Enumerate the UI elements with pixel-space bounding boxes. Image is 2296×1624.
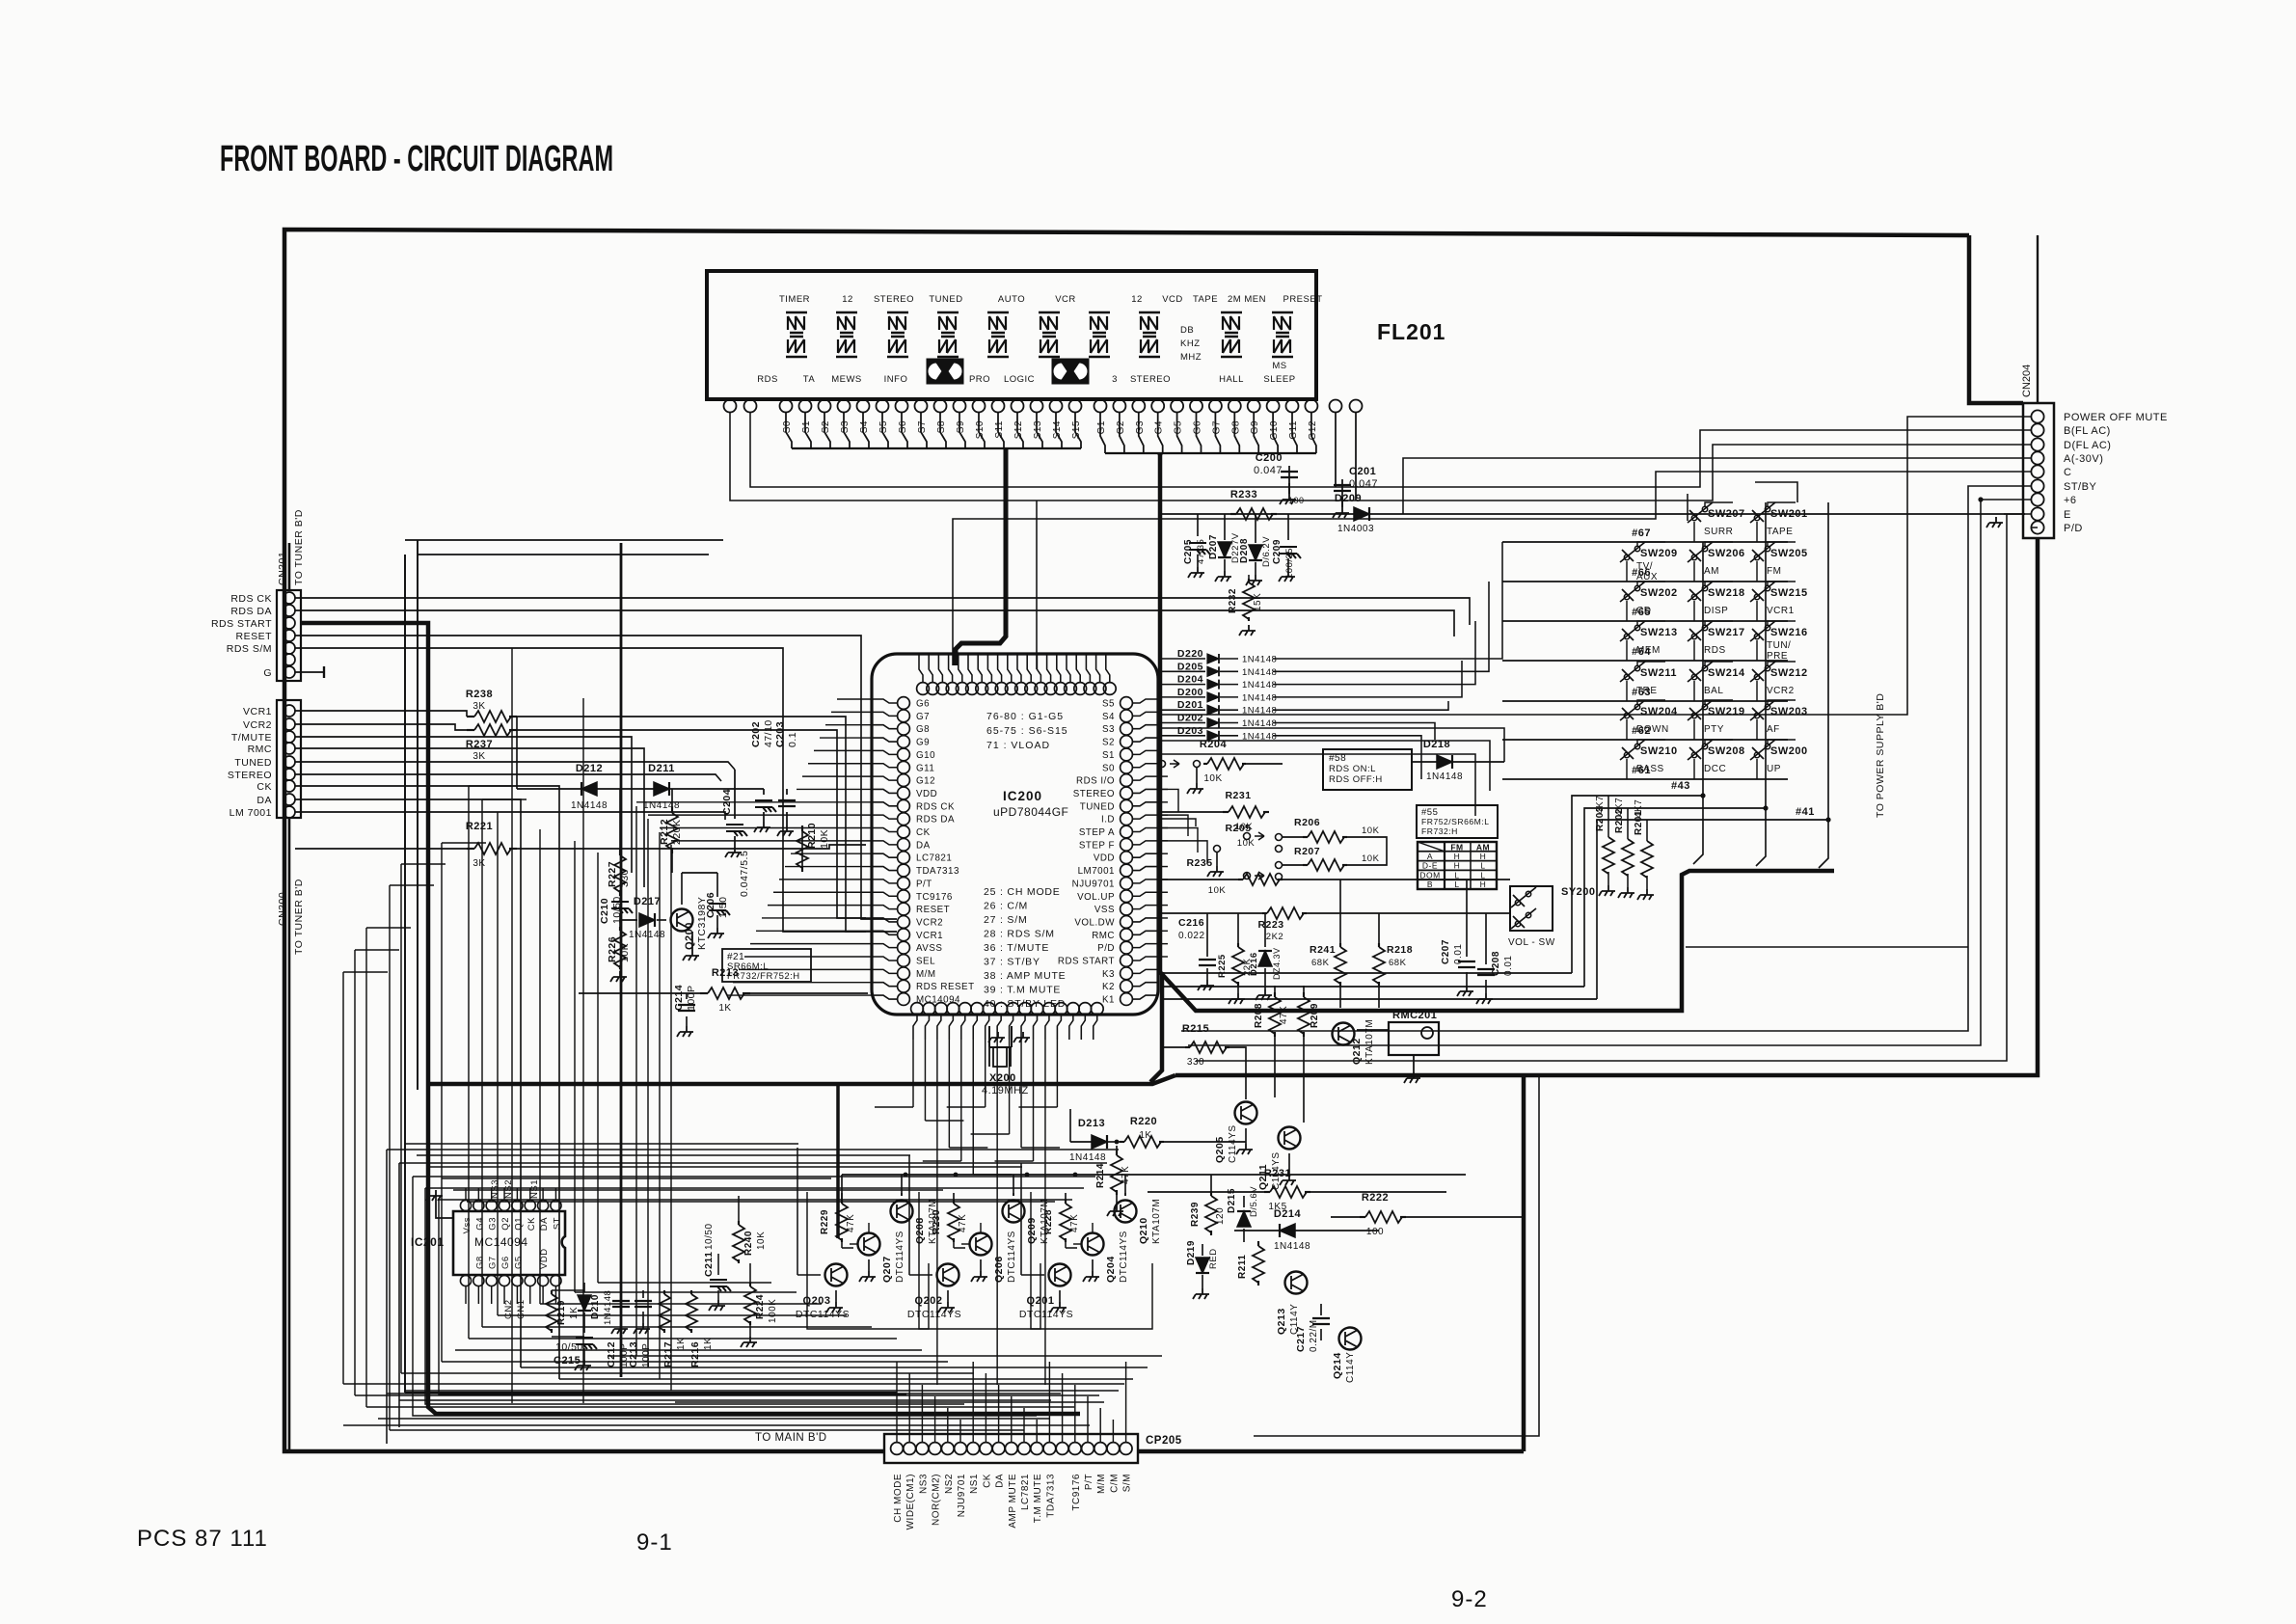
svg-text:10K: 10K — [756, 1232, 767, 1250]
wire CN204 stub — [2037, 235, 2039, 403]
svg-text:C: C — [2064, 467, 2071, 478]
svg-text:T/MUTE: T/MUTE — [231, 732, 272, 744]
svg-text:G4: G4 — [1154, 420, 1165, 434]
svg-text:CK: CK — [916, 827, 931, 838]
svg-text:SW216: SW216 — [1770, 627, 1808, 638]
wire thick vertical x869 to transistor bank — [836, 1084, 840, 1238]
truth table FM AM — [1418, 842, 1497, 889]
svg-text:Vss: Vss — [462, 1217, 473, 1233]
wires stage Q202 — [953, 1242, 955, 1248]
connector CN204 box — [2023, 403, 2054, 538]
IC201 body MC14094 — [453, 1211, 565, 1275]
resistor R231 10K — [1223, 811, 1229, 813]
svg-text:TO TUNER B'D: TO TUNER B'D — [293, 509, 305, 585]
svg-text:1N4148: 1N4148 — [1242, 667, 1277, 678]
zener D208 D/6.2V — [1255, 514, 1256, 543]
transistor Q205 C114YS — [1235, 1102, 1257, 1124]
svg-text:10/50: 10/50 — [555, 1341, 583, 1353]
svg-text:S2: S2 — [1102, 738, 1115, 748]
svg-text:S3: S3 — [840, 420, 851, 433]
svg-text:C208: C208 — [1491, 951, 1501, 976]
wire thin S13 drop — [1036, 501, 1038, 669]
switch SW200 UP — [1750, 740, 1775, 760]
svg-text:C215: C215 — [554, 1355, 581, 1367]
svg-text:SW207: SW207 — [1708, 508, 1745, 520]
IC201 nested loop wires — [386, 1150, 388, 1444]
svg-text:C203: C203 — [774, 721, 786, 747]
connector CN200 box — [277, 700, 301, 818]
switch SW212 VCR2 — [1750, 662, 1775, 682]
FL201 tape icon left — [927, 359, 963, 384]
svg-text:9-2: 9-2 — [1451, 1586, 1488, 1612]
svg-text:28 : RDS S/M: 28 : RDS S/M — [984, 929, 1055, 940]
switch block SY200 VOL-SW — [1510, 886, 1553, 931]
svg-text:D215: D215 — [1227, 1188, 1237, 1213]
resistor R225 22K — [1237, 943, 1239, 947]
svg-text:RDS: RDS — [757, 374, 778, 385]
svg-text:LC7821: LC7821 — [1020, 1474, 1031, 1510]
svg-text:D203: D203 — [1177, 725, 1203, 737]
svg-text:SY200: SY200 — [1561, 886, 1596, 898]
svg-text:R240: R240 — [743, 1231, 754, 1256]
svg-text:HALL: HALL — [1219, 374, 1244, 385]
svg-text:R229: R229 — [820, 1209, 830, 1234]
svg-text:VDD: VDD — [916, 789, 937, 799]
svg-text:RDS CK: RDS CK — [916, 801, 955, 812]
svg-text:330: 330 — [1187, 1057, 1204, 1068]
svg-text:INFO: INFO — [884, 374, 908, 385]
switch SW205 FM — [1750, 542, 1775, 562]
resistor R223 2K2 — [1262, 912, 1267, 914]
svg-text:H: H — [1454, 861, 1461, 871]
svg-text:D-E: D-E — [1422, 861, 1438, 871]
svg-text:R232: R232 — [1228, 588, 1238, 613]
transistor Q203 DTC114YS — [825, 1264, 848, 1286]
svg-text:R227: R227 — [607, 861, 618, 887]
svg-text:38 : AMP MUTE: 38 : AMP MUTE — [984, 970, 1066, 982]
svg-text:C/M: C/M — [1109, 1474, 1120, 1493]
svg-text:S1: S1 — [801, 420, 812, 433]
svg-text:Q205: Q205 — [1214, 1136, 1226, 1163]
FL201 S pin bus — [786, 412, 792, 448]
IC200 left wire vertical drops — [635, 806, 637, 1356]
transistor Q208 KTA107M — [891, 1201, 913, 1223]
resistor R221 3K — [467, 848, 474, 850]
svg-text:76-80 : G1-G5: 76-80 : G1-G5 — [986, 711, 1064, 722]
svg-text:R217: R217 — [662, 1341, 674, 1367]
svg-text:STEREO: STEREO — [1073, 789, 1115, 799]
wire RDS S/M — [295, 648, 897, 932]
wire CN204 P/D — [2031, 527, 2038, 528]
resistor R220 1K — [1120, 1141, 1124, 1143]
svg-text:1K: 1K — [718, 1003, 731, 1014]
svg-text:C202: C202 — [750, 721, 762, 747]
svg-text:G11: G11 — [1288, 420, 1299, 440]
svg-text:TO TUNER B'D: TO TUNER B'D — [293, 879, 305, 955]
matrix feed #41 — [1162, 998, 1597, 1000]
svg-text:RDS S/M: RDS S/M — [227, 643, 272, 655]
svg-text:S13: S13 — [1033, 420, 1043, 439]
svg-text:VSS: VSS — [1094, 905, 1115, 915]
svg-text:STEREO: STEREO — [228, 770, 272, 781]
switch SW213 MEM — [1620, 621, 1645, 641]
wire CN204 C — [953, 472, 2031, 665]
svg-text:VCR1: VCR1 — [916, 931, 943, 941]
resistor R206 10K — [1303, 836, 1308, 838]
svg-text:15K: 15K — [1253, 593, 1263, 611]
svg-text:VDD: VDD — [539, 1248, 550, 1269]
svg-text:D(FL AC): D(FL AC) — [2064, 440, 2111, 451]
CP205 pin riser wires — [896, 1362, 898, 1442]
svg-text:40 : ST/BY LED: 40 : ST/BY LED — [984, 998, 1066, 1010]
matrix feed #43 — [1162, 972, 1572, 974]
svg-text:25 : CH MODE: 25 : CH MODE — [984, 886, 1061, 898]
svg-text:0.047: 0.047 — [1254, 465, 1283, 476]
wire thick horizontal y1124 into IC200 area — [428, 1075, 1175, 1084]
resistor R202 4K7 — [1627, 838, 1629, 840]
transistor Q207 DTC114YS — [858, 1233, 880, 1256]
svg-text:G6: G6 — [1193, 420, 1203, 434]
switch SW207 SURR — [1688, 502, 1713, 523]
svg-text:S1: S1 — [1102, 750, 1115, 761]
svg-text:VOL - SW: VOL - SW — [1508, 937, 1555, 948]
svg-text:S8: S8 — [936, 420, 947, 433]
resistor R229 47K — [841, 1200, 843, 1204]
svg-text:C209: C209 — [1272, 539, 1283, 564]
wire RESET — [295, 636, 897, 919]
transistor base feed horizontals — [405, 1143, 798, 1145]
svg-text:Q209: Q209 — [1026, 1217, 1038, 1244]
svg-text:SW214: SW214 — [1708, 667, 1745, 679]
svg-text:TRE: TRE — [1636, 686, 1658, 696]
svg-text:P/D: P/D — [1097, 943, 1115, 954]
svg-text:P/T: P/T — [916, 879, 932, 889]
svg-text:I.D: I.D — [1101, 815, 1115, 826]
svg-text:VCD: VCD — [1162, 294, 1183, 305]
wire VCR2 to R237 — [295, 724, 467, 730]
transistor Q206 DTC114YS — [970, 1233, 992, 1256]
svg-text:1N4003: 1N4003 — [1337, 524, 1374, 534]
switch SW219 PTY — [1688, 700, 1713, 720]
svg-text:H: H — [1480, 880, 1487, 889]
IC200 body uPD78044GF — [872, 654, 1158, 1015]
svg-text:C216: C216 — [1178, 917, 1204, 929]
svg-text:2K2: 2K2 — [1266, 932, 1283, 942]
wire loop stage Q201 — [1031, 1192, 1152, 1329]
svg-text:TC9176: TC9176 — [916, 892, 953, 903]
diode D209 1N4003 — [1354, 507, 1369, 521]
svg-text:39 : T.M MUTE: 39 : T.M MUTE — [984, 985, 1061, 996]
svg-text:NS1: NS1 — [969, 1474, 980, 1494]
svg-text:DISP: DISP — [1704, 606, 1728, 616]
svg-text:10K: 10K — [1208, 885, 1227, 896]
svg-text:10K: 10K — [819, 829, 830, 849]
resistor R218 68K — [1378, 943, 1380, 947]
transistor Q202 DTC114YS — [937, 1264, 959, 1286]
wire thick left vertical x444 from CN201 RDS START — [300, 623, 1080, 1414]
svg-text:Q206: Q206 — [993, 1256, 1005, 1283]
diode D217 1N4148 — [639, 913, 655, 927]
svg-text:S6: S6 — [898, 420, 908, 433]
resistor R231 1K5 — [1264, 1191, 1270, 1193]
svg-text:DCC: DCC — [1704, 764, 1726, 774]
svg-text:SW210: SW210 — [1640, 745, 1678, 757]
wire CN204 E ground — [2004, 513, 2031, 515]
resistor R230 47K — [953, 1200, 955, 1204]
svg-text:K1: K1 — [1102, 995, 1115, 1006]
svg-text:MS: MS — [1272, 361, 1286, 371]
svg-text:S14: S14 — [1052, 420, 1063, 439]
svg-text:R211: R211 — [1237, 1255, 1248, 1279]
wire LM7001 — [295, 812, 725, 820]
FL201 tape icon right — [1052, 359, 1089, 384]
svg-text:D207: D207 — [1208, 534, 1219, 559]
zener D207 D227V — [1224, 514, 1226, 540]
svg-text:SEL: SEL — [916, 957, 935, 967]
connector CP205 box — [884, 1434, 1138, 1463]
svg-text:NJU9701: NJU9701 — [1072, 879, 1115, 889]
switch SW216 TUN//PRE — [1750, 621, 1775, 641]
resistor R232 15K — [1248, 579, 1250, 582]
svg-text:3K: 3K — [473, 858, 485, 869]
svg-text:47K: 47K — [846, 1214, 856, 1232]
wire thick IC200 right-side lower segment — [1150, 972, 1162, 1082]
svg-text:STEP A: STEP A — [1079, 827, 1115, 838]
connector CN204 pins — [2031, 410, 2043, 422]
switch SW215 VCR1 — [1750, 582, 1775, 602]
diode D212 1N4148 — [581, 782, 597, 796]
svg-text:C114YS: C114YS — [1228, 1124, 1238, 1163]
svg-text:TUNED: TUNED — [234, 757, 272, 769]
svg-text:G11: G11 — [916, 763, 934, 773]
switch SW218 DISP — [1688, 582, 1713, 602]
svg-text:VCR: VCR — [1055, 294, 1076, 305]
svg-text:D220: D220 — [1177, 648, 1203, 660]
svg-text:FR752/SR66M:L: FR752/SR66M:L — [1421, 817, 1490, 826]
svg-text:100: 100 — [1366, 1227, 1384, 1237]
svg-text:M/M: M/M — [1096, 1474, 1107, 1494]
svg-text:Q210: Q210 — [1138, 1217, 1149, 1244]
svg-text:100/35: 100/35 — [1284, 548, 1295, 579]
svg-text:S/M: S/M — [1122, 1474, 1133, 1492]
svg-text:R223: R223 — [1257, 919, 1283, 931]
svg-text:MC14094: MC14094 — [916, 995, 960, 1006]
svg-text:VCR1: VCR1 — [243, 706, 272, 717]
svg-text:NS2: NS2 — [944, 1474, 955, 1494]
svg-text:R241: R241 — [1310, 944, 1336, 956]
transistor Q204 DTC114YS — [1082, 1233, 1104, 1256]
svg-text:1N4148: 1N4148 — [1426, 771, 1463, 782]
svg-text:K2: K2 — [1102, 982, 1115, 992]
resistor R214 47K — [1116, 1150, 1118, 1155]
svg-text:S0: S0 — [1102, 763, 1115, 773]
wire CN204 A(-30V) — [1403, 458, 2031, 514]
svg-text:TUNED: TUNED — [929, 294, 962, 305]
svg-text:VCR1: VCR1 — [1767, 606, 1795, 616]
svg-text:R221: R221 — [466, 821, 493, 832]
svg-text:CK: CK — [527, 1217, 537, 1231]
svg-text:#67: #67 — [1632, 528, 1651, 539]
svg-text:RDS OFF:H: RDS OFF:H — [1329, 774, 1383, 785]
svg-text:0.1: 0.1 — [787, 732, 798, 747]
svg-text:R213: R213 — [712, 967, 739, 979]
transistor Q201 DTC114YS — [1049, 1264, 1071, 1286]
svg-text:68K: 68K — [1389, 958, 1407, 968]
svg-text:1N4148: 1N4148 — [603, 1290, 613, 1325]
svg-text:1N4148: 1N4148 — [1242, 692, 1277, 703]
svg-text:PRESET: PRESET — [1283, 294, 1322, 305]
svg-text:RDS: RDS — [1704, 645, 1726, 656]
svg-text:DOM: DOM — [1419, 870, 1440, 880]
svg-text:12: 12 — [1131, 294, 1143, 305]
svg-text:#41: #41 — [1796, 806, 1815, 818]
svg-text:SW219: SW219 — [1708, 706, 1745, 717]
wire CK — [295, 786, 559, 1379]
resistor R237 3K — [467, 729, 474, 731]
svg-text:R214: R214 — [1095, 1163, 1106, 1188]
svg-text:CH MODE: CH MODE — [893, 1474, 904, 1523]
svg-text:D209: D209 — [1335, 493, 1362, 504]
wire CN204 B(FL AC) — [750, 412, 2031, 487]
svg-text:Q204: Q204 — [1105, 1256, 1117, 1283]
svg-text:R218: R218 — [1387, 944, 1413, 956]
svg-text:SW203: SW203 — [1770, 706, 1808, 717]
wire thick bus corner x1580 — [1522, 1075, 1526, 1451]
svg-text:MEM: MEM — [1636, 645, 1661, 656]
svg-text:C210: C210 — [599, 898, 610, 924]
svg-text:C214: C214 — [673, 985, 685, 1011]
svg-text:TA: TA — [803, 374, 816, 385]
wires stage Q201 — [1065, 1242, 1067, 1248]
resistor R240 10K — [738, 1221, 740, 1225]
svg-text:R215: R215 — [1182, 1023, 1209, 1035]
svg-text:R226: R226 — [607, 936, 618, 962]
left bundle top elbows — [343, 971, 388, 973]
svg-text:R225: R225 — [1217, 954, 1228, 978]
bottom-right nested corner wires — [1254, 1075, 1539, 1436]
IC201 pin stub wires — [465, 1188, 467, 1200]
wire thick G-bus drop — [1158, 453, 1163, 455]
svg-text:S3: S3 — [1102, 724, 1115, 735]
svg-text:D219: D219 — [1186, 1240, 1197, 1265]
svg-text:RESET: RESET — [235, 631, 272, 642]
svg-text:R231: R231 — [1225, 790, 1251, 801]
svg-text:SW204: SW204 — [1640, 706, 1678, 717]
wire Q200 collector — [682, 872, 717, 874]
svg-text:TO MAIN B'D: TO MAIN B'D — [755, 1432, 827, 1444]
IC201 bottom pins — [460, 1275, 471, 1286]
wires from IC200 right to matrix rows — [1162, 728, 1504, 762]
svg-text:1K: 1K — [1139, 1130, 1151, 1141]
svg-text:Q208: Q208 — [914, 1217, 926, 1244]
wire R238 R237 to IC200 — [517, 717, 866, 932]
wire RDS DA long — [295, 610, 1454, 636]
svg-text:SW202: SW202 — [1640, 587, 1678, 599]
svg-text:1N4148: 1N4148 — [1069, 1152, 1106, 1163]
IC200 left pin circles — [898, 697, 910, 710]
svg-text:10K: 10K — [1362, 853, 1380, 864]
wire TUNED — [295, 762, 735, 770]
svg-text:STEREO: STEREO — [874, 294, 914, 305]
svg-text:G: G — [263, 667, 272, 679]
resistor R241 68K — [1339, 943, 1341, 947]
receiver RMC201 — [1389, 1022, 1439, 1055]
svg-text:RDS RESET: RDS RESET — [916, 982, 975, 992]
wire FL201 filament mesh lines — [405, 539, 723, 541]
wire loop stage Q203 — [807, 1192, 929, 1329]
resistor R226 10K — [619, 927, 621, 931]
svg-text:G4: G4 — [474, 1217, 485, 1231]
svg-text:L: L — [1454, 870, 1459, 880]
extra left bundle verticals upper — [511, 648, 513, 1403]
svg-text:VDD: VDD — [1094, 853, 1115, 864]
svg-text:47K: 47K — [1069, 1214, 1080, 1232]
svg-text:R206: R206 — [1294, 817, 1320, 828]
svg-text:G5: G5 — [513, 1256, 524, 1269]
wire CN204 D(FL AC) — [730, 412, 2031, 501]
wire thick S-bus drop to IC200 — [956, 447, 1006, 665]
resistor R211 — [1257, 1241, 1259, 1246]
svg-text:0.022: 0.022 — [1178, 931, 1205, 941]
svg-text:TAPE: TAPE — [1767, 527, 1793, 537]
diode D210 1N4148 — [583, 1283, 585, 1292]
transistor Q211 C114YS — [1279, 1127, 1301, 1150]
svg-text:DA: DA — [995, 1474, 1006, 1488]
svg-text:X200: X200 — [989, 1072, 1016, 1084]
resistor R215 330 — [1185, 1046, 1190, 1048]
svg-text:CN204: CN204 — [2021, 365, 2033, 397]
switch SW214 BAL — [1688, 662, 1713, 682]
svg-text:G7: G7 — [1211, 420, 1222, 434]
svg-text:G3: G3 — [488, 1217, 499, 1231]
svg-text:S12: S12 — [1013, 420, 1024, 439]
svg-text:10K: 10K — [619, 943, 631, 962]
svg-text:0.047: 0.047 — [1349, 478, 1378, 490]
capacitor C201 0.047 — [1341, 479, 1343, 501]
svg-text:S15: S15 — [1071, 420, 1082, 439]
svg-text:C201: C201 — [1349, 466, 1376, 477]
svg-text:1K: 1K — [569, 1307, 580, 1319]
svg-text:DOWN: DOWN — [1636, 724, 1669, 735]
diode D211 1N4148 — [654, 782, 669, 796]
svg-text:B(FL AC): B(FL AC) — [2064, 425, 2111, 437]
svg-text:37 : ST/BY: 37 : ST/BY — [984, 957, 1040, 968]
svg-text:68K: 68K — [1311, 958, 1330, 968]
svg-text:POWER OFF MUTE: POWER OFF MUTE — [2064, 412, 2168, 423]
wire diode row D212 D211 — [517, 788, 581, 790]
capacitor C200 0.047 — [1288, 466, 1290, 487]
transistor Q214 — [1339, 1328, 1362, 1350]
svg-text:4K7: 4K7 — [1595, 796, 1606, 814]
svg-text:RESET: RESET — [916, 905, 950, 915]
capacitor C211 10/50 — [710, 1280, 731, 1291]
svg-text:CN200: CN200 — [277, 892, 288, 926]
svg-text:C212: C212 — [606, 1341, 617, 1367]
svg-text:S9: S9 — [956, 420, 966, 433]
svg-text:R212: R212 — [659, 819, 670, 845]
svg-text:SW212: SW212 — [1770, 667, 1808, 679]
zener D215 D/5.6V — [1243, 1196, 1245, 1207]
LED D219 RED — [1202, 1244, 1203, 1256]
svg-text:SW211: SW211 — [1640, 667, 1677, 679]
transistor Q209 KTA107M — [1003, 1201, 1025, 1223]
capacitor C212 100P — [620, 1290, 622, 1298]
svg-text:10K: 10K — [1203, 773, 1222, 784]
svg-text:+6: +6 — [2064, 495, 2077, 506]
resistor R216 1K — [690, 1290, 692, 1294]
svg-text:K3: K3 — [1102, 969, 1115, 980]
svg-text:S4: S4 — [859, 420, 870, 433]
